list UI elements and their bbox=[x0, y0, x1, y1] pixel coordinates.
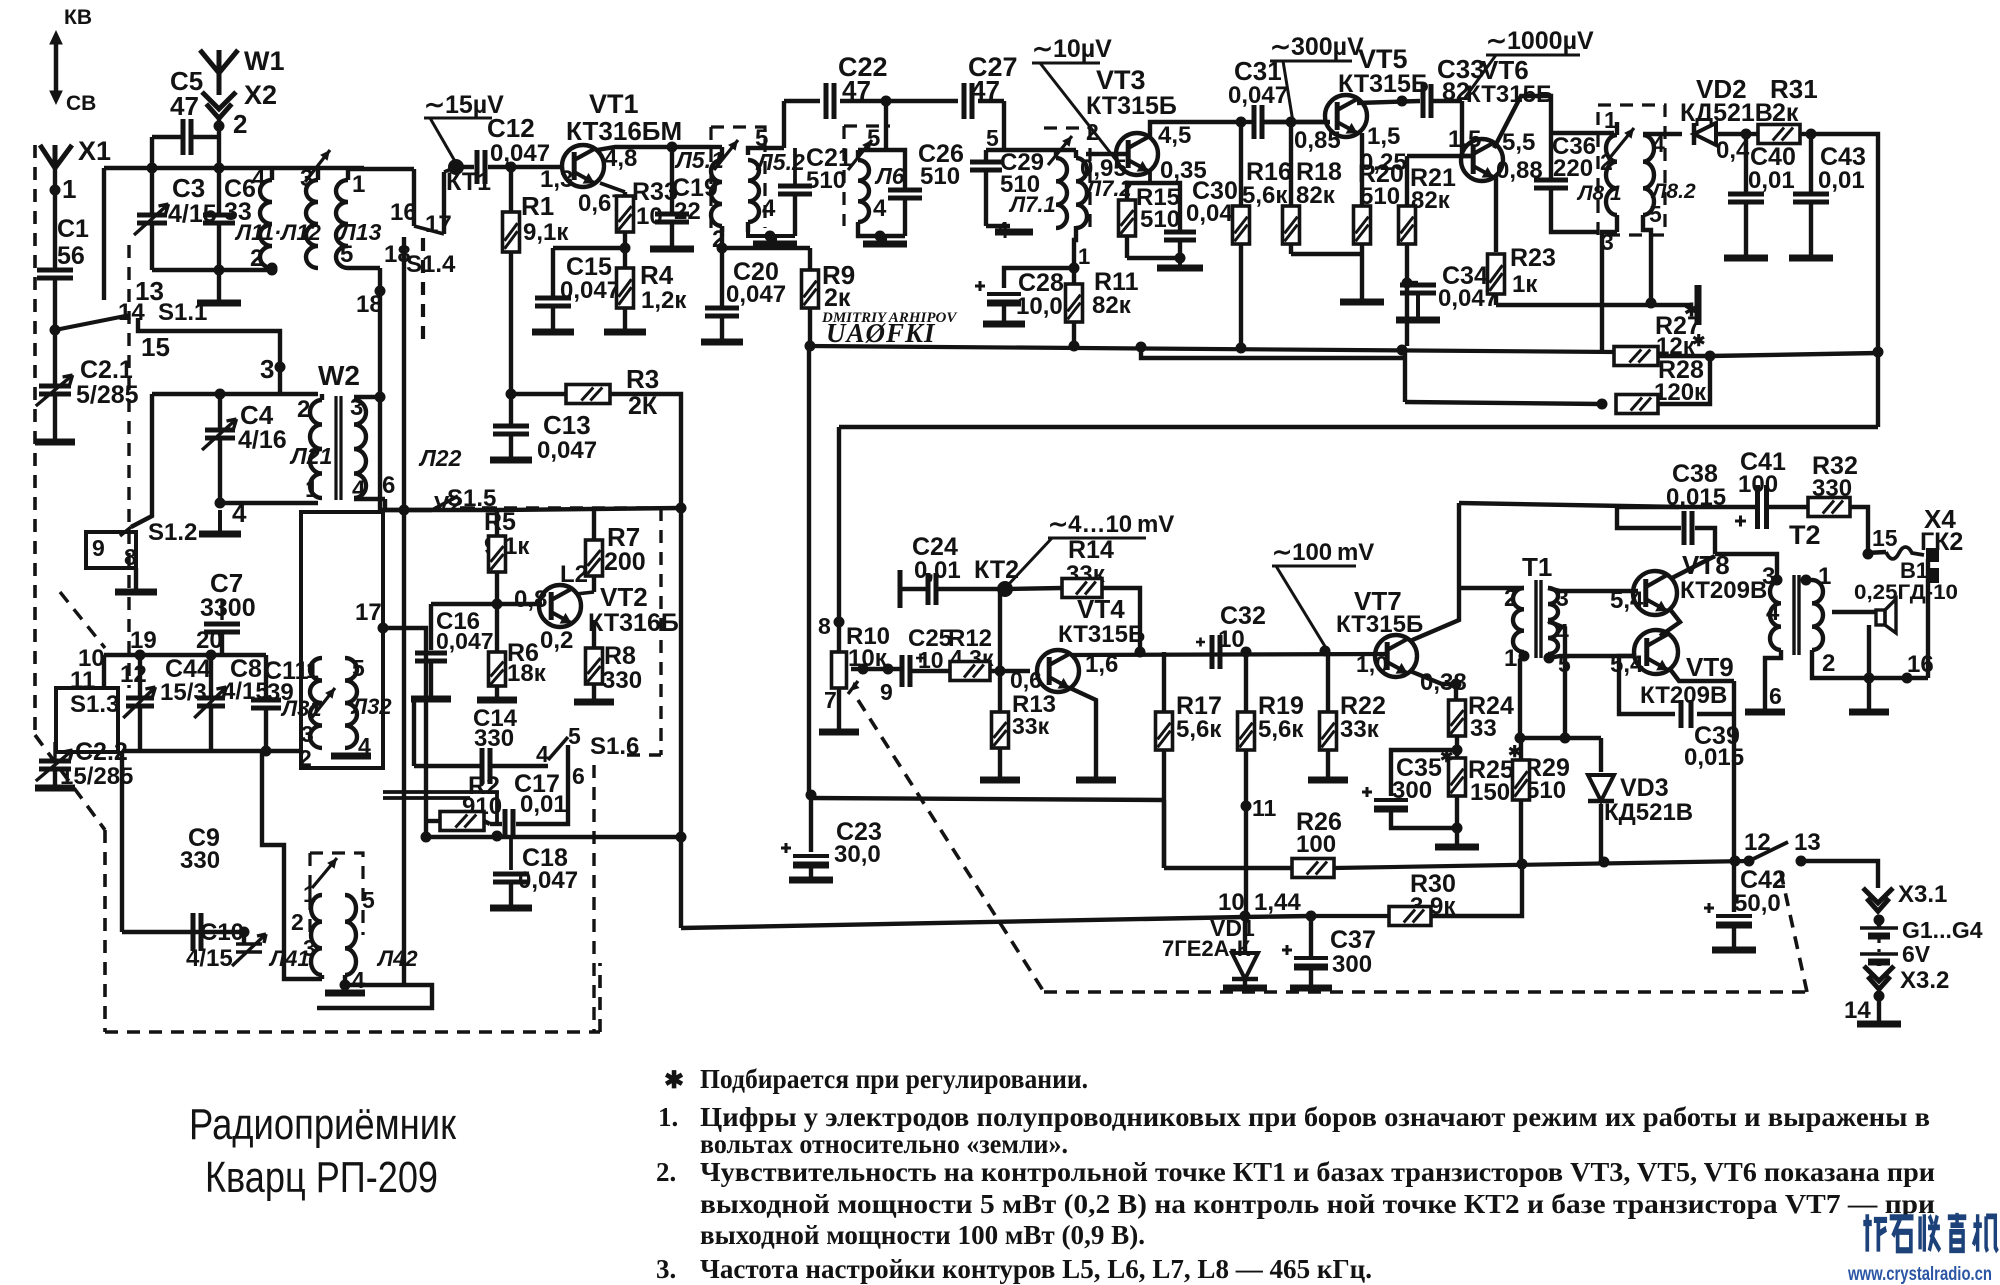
T1 secondary wires to VT8 VT9 bbox=[1548, 588, 1638, 591]
tuning arrow L4 bbox=[312, 858, 337, 888]
emitter return wire to ground bar bbox=[1496, 303, 1692, 307]
L7.2 bottom to R11 bbox=[1074, 226, 1076, 268]
rail 2 from C31 junction bbox=[1141, 346, 1405, 358]
svg-text:2: 2 bbox=[1822, 650, 1835, 677]
svg-text:4/16: 4/16 bbox=[238, 426, 287, 454]
switch S1.3 box bbox=[56, 688, 118, 752]
ground below C6 bbox=[217, 270, 221, 301]
svg-text:5: 5 bbox=[1649, 201, 1662, 227]
svg-text:X2: X2 bbox=[244, 80, 277, 110]
VT3 emitter R15 C30 bbox=[1148, 170, 1152, 183]
svg-text:15: 15 bbox=[1872, 525, 1898, 551]
svg-text:5: 5 bbox=[986, 125, 999, 151]
svg-text:56: 56 bbox=[57, 242, 85, 270]
svg-text:0,047: 0,047 bbox=[537, 437, 597, 464]
svg-text:4/15: 4/15 bbox=[186, 945, 233, 972]
VT5 emitter bottom wire bbox=[1291, 252, 1362, 256]
svg-text:1,3: 1,3 bbox=[540, 166, 573, 193]
svg-text:Частота настройки контуров L5,: Частота настройки контуров L5, L6, L7, L… bbox=[700, 1254, 1372, 1284]
svg-text:C37: C37 bbox=[1330, 926, 1376, 954]
C38 loop wires bbox=[1617, 507, 1681, 528]
svg-text:Л42: Л42 bbox=[376, 946, 418, 971]
coil L3.1 bbox=[310, 658, 322, 748]
wire L3 out down to AF input bbox=[383, 628, 426, 837]
antenna X1 bbox=[40, 145, 72, 168]
vertical L1.3 pin5 to S1.5 row bbox=[378, 397, 382, 510]
svg-text:18: 18 bbox=[356, 291, 383, 318]
tuning arrow L8 bbox=[1608, 128, 1634, 160]
svg-text:33к: 33к bbox=[1012, 713, 1050, 739]
svg-text:4: 4 bbox=[536, 741, 549, 767]
dashed box L8 bbox=[1598, 105, 1665, 235]
svg-text:✱: ✱ bbox=[1440, 749, 1453, 766]
wire from contact 16 down bbox=[402, 237, 406, 510]
svg-text:1: 1 bbox=[305, 476, 318, 503]
wire y751 row bbox=[122, 749, 301, 753]
svg-text:9: 9 bbox=[92, 535, 105, 561]
tuning arrow L5 bbox=[714, 140, 738, 170]
coil L1.1 bbox=[260, 180, 272, 268]
svg-text:КТ315Б: КТ315Б bbox=[1058, 621, 1145, 648]
tuning arrow L3 bbox=[310, 688, 335, 720]
coil L4.2 bbox=[345, 895, 356, 975]
wire y394 row bbox=[152, 392, 318, 396]
svg-text:R8: R8 bbox=[604, 642, 636, 670]
svg-text:R1: R1 bbox=[521, 191, 554, 221]
svg-text:7ГЕ2А-К: 7ГЕ2А-К bbox=[1162, 936, 1251, 961]
wire y507 to C41 bbox=[1617, 505, 1756, 509]
svg-text:0,047: 0,047 bbox=[490, 140, 550, 167]
switch S1.5 bbox=[380, 508, 432, 512]
VT9 collector bbox=[1670, 669, 1734, 681]
coil L7.1 bbox=[1056, 158, 1067, 228]
W2 core bbox=[334, 396, 337, 500]
coil L8.1 bbox=[1606, 135, 1617, 215]
band selector arrow KV/SV bbox=[54, 36, 59, 99]
svg-text:1.: 1. bbox=[658, 1102, 678, 1132]
VT7 emitter to R24 bbox=[1410, 671, 1456, 684]
bottom dashed enclosure bbox=[33, 145, 37, 735]
coil L8.2 bbox=[1643, 135, 1654, 215]
coil L3.2 bbox=[345, 658, 357, 748]
svg-text:330: 330 bbox=[180, 847, 220, 874]
svg-text:47: 47 bbox=[170, 91, 199, 121]
vertical from W2 pin4 down bbox=[383, 499, 387, 512]
svg-text:510: 510 bbox=[1140, 206, 1180, 233]
svg-text:4: 4 bbox=[762, 195, 776, 222]
wire from rail down at x839 bbox=[837, 427, 841, 652]
svg-text:C3: C3 bbox=[172, 173, 205, 203]
svg-text:S1.3: S1.3 bbox=[70, 691, 119, 718]
tuning arrow L6 bbox=[848, 140, 872, 170]
svg-text:∼10µV: ∼10µV bbox=[1032, 35, 1112, 63]
svg-text:6V: 6V bbox=[1902, 941, 1931, 967]
dashed box L4 bbox=[310, 853, 363, 935]
VT6 emitter down R23 bbox=[1494, 176, 1498, 252]
svg-text:7: 7 bbox=[824, 687, 837, 713]
svg-text:С10: С10 bbox=[200, 919, 244, 946]
svg-text:1: 1 bbox=[62, 174, 76, 204]
svg-text:1к: 1к bbox=[1512, 271, 1538, 298]
svg-text:0,047: 0,047 bbox=[1228, 82, 1288, 109]
svg-text:Кварц РП-209: Кварц РП-209 bbox=[205, 1153, 438, 1202]
svg-text:6: 6 bbox=[572, 763, 585, 789]
svg-text:0,047: 0,047 bbox=[436, 628, 494, 654]
VT5 collector to rail bbox=[1357, 101, 1420, 103]
svg-text:КД521В: КД521В bbox=[1604, 799, 1693, 826]
svg-text:2: 2 bbox=[291, 909, 304, 935]
svg-text:КВ: КВ bbox=[64, 6, 92, 29]
svg-text:VD3: VD3 bbox=[1620, 774, 1669, 802]
VT3 base wire bbox=[1086, 152, 1128, 156]
svg-text:4: 4 bbox=[873, 195, 887, 222]
svg-text:0,015: 0,015 bbox=[1684, 744, 1744, 771]
VT8 collector to T2 bbox=[1670, 556, 1715, 579]
svg-text:8: 8 bbox=[124, 544, 137, 570]
svg-text:2: 2 bbox=[233, 109, 247, 139]
svg-text:Л32: Л32 bbox=[350, 694, 392, 719]
test point KT1 bbox=[448, 159, 464, 175]
VT3 collector wire to C31 bbox=[1150, 122, 1241, 139]
switch S2 12-13 bbox=[1744, 856, 1755, 867]
svg-text:VT1: VT1 bbox=[589, 89, 639, 119]
switch S1.1 bbox=[55, 315, 130, 330]
vertical C11 node down to L4 bbox=[262, 751, 284, 930]
coil L4.1 bbox=[311, 895, 322, 975]
svg-text:510: 510 bbox=[1526, 777, 1566, 804]
svg-text:T2: T2 bbox=[1789, 520, 1821, 550]
svg-text:1: 1 bbox=[1078, 244, 1090, 269]
dashed mech link bottom bbox=[858, 700, 1044, 992]
svg-text:18к: 18к bbox=[507, 660, 547, 687]
svg-text:Радиоприёмник: Радиоприёмник bbox=[189, 1100, 457, 1149]
long rail from R9 to R27 bbox=[810, 346, 1614, 352]
wire KT1 to C12 bbox=[456, 165, 474, 169]
svg-text:В1: В1 bbox=[1900, 558, 1928, 583]
svg-text:G1...G4: G1...G4 bbox=[1902, 917, 1983, 943]
speaker enclosure wires bbox=[1832, 610, 1876, 614]
svg-text:2: 2 bbox=[1600, 149, 1613, 175]
svg-text:50,0: 50,0 bbox=[1734, 890, 1781, 917]
svg-text:✱: ✱ bbox=[664, 1068, 684, 1094]
svg-text:9,1к: 9,1к bbox=[523, 219, 569, 246]
crystalradio watermark bbox=[1863, 1213, 1997, 1252]
svg-text:2: 2 bbox=[297, 396, 310, 423]
svg-text:5,6к: 5,6к bbox=[1258, 716, 1304, 743]
switch S1.2 bbox=[86, 532, 136, 568]
svg-text:15: 15 bbox=[141, 332, 170, 362]
L4 bottom wires bbox=[284, 930, 322, 979]
bottom wire of input circuit bbox=[152, 268, 272, 272]
svg-text:R5: R5 bbox=[484, 508, 516, 536]
svg-text:вольтах относительно «земли».: вольтах относительно «земли». bbox=[700, 1129, 1068, 1159]
svg-text:Л11·Л12: Л11·Л12 bbox=[234, 220, 322, 245]
svg-text:200: 200 bbox=[604, 548, 646, 576]
wire y655 row bbox=[104, 653, 266, 657]
svg-text:3: 3 bbox=[1762, 563, 1775, 590]
svg-text:0,01: 0,01 bbox=[520, 791, 567, 818]
svg-text:5: 5 bbox=[362, 887, 375, 913]
tuning arrow L7 bbox=[1048, 136, 1072, 165]
svg-text:КТ315Б: КТ315Б bbox=[1086, 92, 1177, 120]
svg-text:1,44: 1,44 bbox=[1254, 889, 1301, 916]
svg-text:R14: R14 bbox=[1068, 536, 1114, 564]
svg-text:∼4…10 mV: ∼4…10 mV bbox=[1048, 511, 1174, 538]
svg-text:КТ209В: КТ209В bbox=[1640, 682, 1727, 709]
svg-text:Л5.2: Л5.2 bbox=[755, 149, 805, 175]
svg-text:2: 2 bbox=[299, 745, 312, 771]
VT1 collector wire bbox=[597, 147, 672, 150]
ground below C19 bbox=[650, 246, 694, 253]
coil L5.2 bbox=[748, 160, 759, 222]
wire y837 to C18 and main vertical bbox=[426, 835, 681, 839]
svg-text:Л7.1: Л7.1 bbox=[1008, 192, 1056, 217]
svg-text:L2: L2 bbox=[560, 561, 588, 588]
svg-text:КТ315Б: КТ315Б bbox=[1336, 611, 1423, 638]
transformer W2 L2.2 bbox=[354, 400, 366, 498]
main vertical from y837 down to bottom rail bbox=[679, 508, 683, 928]
svg-text:82к: 82к bbox=[1296, 182, 1336, 209]
coil L6 bbox=[858, 160, 869, 222]
connector X2 bbox=[202, 92, 236, 118]
svg-text:S1.1: S1.1 bbox=[158, 299, 207, 326]
svg-text:30,0: 30,0 bbox=[834, 841, 881, 868]
svg-text:✱: ✱ bbox=[1508, 744, 1521, 761]
svg-text:0,95: 0,95 bbox=[1080, 155, 1127, 182]
wire y868 R26 row bbox=[1162, 800, 1166, 868]
T2 pin6 ground bbox=[1765, 650, 1781, 710]
svg-text:T1: T1 bbox=[1522, 552, 1552, 582]
wire C27 down to L7 cell bbox=[1002, 101, 1006, 150]
wire y503 feedback row bbox=[1459, 503, 1679, 507]
wire y508 row bbox=[380, 508, 500, 512]
vertical C22 node to L6 bbox=[884, 101, 888, 150]
svg-text:Л31: Л31 bbox=[280, 696, 322, 721]
wire C23 node row bbox=[811, 798, 1164, 800]
svg-text:Подбирается при регулировании.: Подбирается при регулировании. bbox=[700, 1064, 1088, 1094]
svg-text:2.: 2. bbox=[656, 1157, 676, 1187]
connector X3.2 bbox=[1877, 962, 1881, 966]
switch S1.4 bbox=[412, 169, 416, 226]
svg-text:4: 4 bbox=[1766, 599, 1780, 626]
svg-text:1,5: 1,5 bbox=[1448, 126, 1481, 153]
svg-text:X3.1: X3.1 bbox=[1898, 881, 1947, 908]
svg-text:Чувствительность на контрольно: Чувствительность на контрольной точке КТ… bbox=[700, 1157, 1935, 1187]
svg-text:510: 510 bbox=[920, 163, 960, 190]
svg-text:20: 20 bbox=[196, 627, 223, 654]
svg-text:330: 330 bbox=[474, 725, 514, 752]
svg-text:W2: W2 bbox=[318, 360, 360, 391]
dashed box L7 bbox=[1044, 128, 1090, 228]
wire R31 to right rail bbox=[1811, 134, 1878, 427]
connector X3.1 bbox=[1863, 888, 1893, 911]
svg-text:VT2: VT2 bbox=[600, 582, 648, 612]
svg-text:3300: 3300 bbox=[200, 594, 256, 622]
coil L1.3 bbox=[336, 180, 348, 268]
VT5 base wire bbox=[1264, 120, 1330, 124]
svg-text:3: 3 bbox=[260, 354, 274, 384]
svg-text:Л21: Л21 bbox=[289, 443, 332, 469]
svg-text:1: 1 bbox=[352, 171, 365, 198]
VT2 base row bbox=[431, 602, 542, 606]
svg-text:www.crystalradio.cn: www.crystalradio.cn bbox=[1847, 1264, 1992, 1285]
svg-text:8: 8 bbox=[818, 613, 831, 639]
svg-text:100: 100 bbox=[1296, 831, 1336, 858]
wire VT4 collector rail bbox=[1072, 654, 1385, 655]
svg-text:5: 5 bbox=[340, 241, 353, 268]
svg-text:0,8: 0,8 bbox=[514, 586, 547, 613]
svg-text:S1.4: S1.4 bbox=[406, 251, 456, 278]
svg-text:14: 14 bbox=[118, 299, 145, 326]
svg-text:0,01: 0,01 bbox=[1748, 167, 1795, 194]
svg-text:КТ316Б: КТ316Б bbox=[588, 609, 679, 637]
svg-text:VT9: VT9 bbox=[1686, 652, 1734, 682]
svg-text:0,85: 0,85 bbox=[1294, 127, 1341, 154]
wire top node to L1 box bbox=[104, 166, 364, 170]
svg-text:19: 19 bbox=[130, 627, 157, 654]
svg-text:КТ316БМ: КТ316БМ bbox=[566, 116, 682, 146]
svg-text:UAØFKI: UAØFKI bbox=[826, 318, 936, 348]
svg-text:82к: 82к bbox=[1092, 292, 1132, 319]
svg-text:R23: R23 bbox=[1510, 244, 1556, 272]
svg-text:W1: W1 bbox=[244, 46, 285, 76]
svg-text:1,5: 1,5 bbox=[1367, 123, 1400, 150]
svg-text:17: 17 bbox=[355, 599, 382, 626]
svg-text:Л8.2: Л8.2 bbox=[1650, 180, 1696, 203]
svg-text:C2.1: C2.1 bbox=[80, 356, 133, 384]
ground L3 pin4 bbox=[331, 753, 371, 760]
svg-text:Цифры у электродов полупровод: Цифры у электродов полупроводниковых при… bbox=[700, 1102, 1930, 1132]
svg-text:11: 11 bbox=[1252, 795, 1277, 821]
X4 wiring hook bbox=[1866, 552, 1886, 553]
svg-text:4,5: 4,5 bbox=[1158, 122, 1191, 149]
svg-text:15/3: 15/3 bbox=[160, 679, 207, 706]
pin2 wire down to C20 bbox=[720, 226, 724, 248]
svg-text:C13: C13 bbox=[543, 410, 591, 440]
dashed box L5 bbox=[711, 127, 765, 228]
svg-text:выходной мощности 100 мВт (0,9: выходной мощности 100 мВт (0,9 В). bbox=[700, 1220, 1145, 1250]
svg-text:150: 150 bbox=[1470, 779, 1510, 806]
svg-text:Л41: Л41 bbox=[268, 946, 310, 971]
svg-text:S1.6: S1.6 bbox=[590, 733, 639, 760]
svg-text:4: 4 bbox=[352, 967, 365, 993]
svg-text:5,5: 5,5 bbox=[1502, 129, 1535, 156]
svg-text:1,2к: 1,2к bbox=[641, 287, 687, 314]
svg-text:3: 3 bbox=[301, 721, 314, 747]
L3 shield box bbox=[301, 512, 383, 768]
svg-text:✱: ✱ bbox=[1692, 333, 1705, 350]
svg-text:Л22: Л22 bbox=[418, 445, 462, 471]
svg-text:330: 330 bbox=[602, 667, 642, 694]
ganged switch dash line bbox=[127, 245, 130, 688]
VT4 emitter bbox=[1070, 688, 1096, 778]
svg-text:∼300µV: ∼300µV bbox=[1270, 33, 1364, 61]
svg-text:2: 2 bbox=[250, 245, 263, 272]
svg-text:X1: X1 bbox=[78, 136, 111, 166]
svg-text:14: 14 bbox=[1844, 997, 1871, 1024]
svg-text:33: 33 bbox=[1470, 715, 1497, 742]
svg-text:5: 5 bbox=[352, 655, 365, 681]
C21 plates bbox=[793, 148, 797, 184]
coil L7.2 bbox=[1076, 158, 1087, 228]
svg-text:5,4: 5,4 bbox=[1610, 587, 1644, 614]
battery G1..G4 6V bbox=[1860, 926, 1898, 930]
svg-text:VT3: VT3 bbox=[1096, 65, 1146, 95]
svg-text:1: 1 bbox=[1504, 645, 1517, 672]
dashed box VT2 stage bbox=[460, 506, 661, 509]
svg-text:C12: C12 bbox=[487, 113, 535, 143]
L1 box right side bbox=[348, 266, 380, 270]
svg-text:выходной мощности 5 мВт (0,2 В: выходной мощности 5 мВт (0,2 В) на контр… bbox=[700, 1189, 1935, 1219]
svg-text:S1.2: S1.2 bbox=[148, 519, 197, 546]
wire L1.3 pin5 down bbox=[378, 268, 382, 397]
svg-text:Л8.1: Л8.1 bbox=[1576, 182, 1622, 205]
svg-text:C1: C1 bbox=[57, 215, 89, 243]
L7 cell wires bbox=[986, 148, 1076, 152]
svg-text:0,047: 0,047 bbox=[726, 281, 786, 308]
wire L5 top to C22 node bbox=[782, 101, 786, 148]
svg-text:∼100 mV: ∼100 mV bbox=[1272, 539, 1374, 566]
svg-text:2к: 2к bbox=[824, 284, 851, 312]
svg-text:10: 10 bbox=[1218, 889, 1245, 916]
svg-text:9: 9 bbox=[880, 679, 893, 705]
svg-text:X3.2: X3.2 bbox=[1900, 967, 1949, 994]
bottom long rail bbox=[681, 917, 1245, 928]
svg-text:510: 510 bbox=[806, 167, 846, 194]
VT1 collector to L5 cell bbox=[672, 145, 711, 149]
KT2 vertical bbox=[998, 589, 1002, 671]
tuning arrow L1.2 bbox=[305, 150, 330, 182]
svg-text:КТ209В: КТ209В bbox=[1680, 577, 1767, 604]
svg-text:4: 4 bbox=[252, 165, 266, 192]
svg-text:0,01: 0,01 bbox=[1818, 167, 1865, 194]
svg-text:13: 13 bbox=[1794, 829, 1821, 856]
VT7 collector vertical bbox=[1410, 503, 1459, 641]
svg-text:10,0: 10,0 bbox=[1016, 293, 1063, 320]
svg-text:0,25ГД-10: 0,25ГД-10 bbox=[1854, 581, 1958, 604]
L1 box left side / switch contact 13 bbox=[102, 168, 106, 300]
svg-text:R3: R3 bbox=[626, 364, 659, 394]
svg-text:1,0: 1,0 bbox=[1356, 651, 1388, 677]
VT8 emitter bbox=[1660, 608, 1680, 636]
wire S1.1 to W2 cell bbox=[138, 318, 280, 394]
svg-text:6: 6 bbox=[382, 472, 395, 499]
svg-text:R4: R4 bbox=[640, 260, 674, 290]
svg-text:0,2: 0,2 bbox=[540, 627, 573, 654]
svg-text:12: 12 bbox=[120, 661, 147, 688]
svg-text:3.: 3. bbox=[656, 1254, 676, 1284]
R10 wiper bbox=[848, 681, 858, 694]
svg-text:33к: 33к bbox=[1340, 716, 1380, 743]
svg-text:1: 1 bbox=[1818, 563, 1831, 590]
VT6 collector to L8 bbox=[1494, 96, 1551, 148]
coil L1.2 bbox=[306, 180, 318, 268]
T1 primary wires bbox=[1459, 586, 1524, 590]
svg-text:СВ: СВ bbox=[66, 92, 96, 115]
coil L5.1 bbox=[711, 160, 722, 226]
svg-text:∼1000µV: ∼1000µV bbox=[1486, 27, 1594, 55]
X4 pin blocks bbox=[1926, 548, 1939, 562]
VT6 base wire bbox=[1462, 101, 1472, 156]
dashed box L6 bbox=[842, 126, 845, 226]
svg-text:0,6: 0,6 bbox=[1010, 667, 1042, 693]
svg-text:6: 6 bbox=[1769, 683, 1782, 709]
antenna W1 bbox=[200, 50, 238, 95]
thick bottom rail y427 bbox=[839, 425, 1878, 430]
diode VD1 7GE2A-K bbox=[1240, 911, 1251, 922]
svg-text:Л6: Л6 bbox=[874, 163, 905, 189]
svg-text:5,6к: 5,6к bbox=[1176, 716, 1222, 743]
